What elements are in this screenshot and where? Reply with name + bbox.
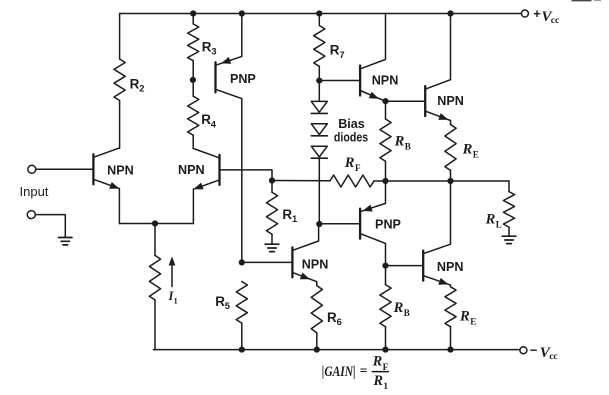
svg-text:R: R bbox=[130, 76, 140, 91]
svg-text:B: B bbox=[404, 308, 410, 318]
svg-text:3: 3 bbox=[211, 47, 216, 57]
svg-text:R: R bbox=[201, 112, 211, 127]
svg-text:NPN: NPN bbox=[437, 260, 464, 274]
svg-text:NPN: NPN bbox=[302, 258, 329, 272]
label Q2 NPN bbox=[178, 163, 205, 177]
svg-text:PNP: PNP bbox=[375, 217, 401, 231]
label Q4 NPN bbox=[372, 74, 399, 88]
node rail RB lower bbox=[382, 347, 388, 353]
resistor RL bbox=[503, 181, 514, 236]
label R1 bbox=[282, 207, 297, 224]
node Q4 emitter bbox=[382, 98, 388, 104]
artifact mark bbox=[572, 0, 602, 1]
terminal input upper bbox=[28, 165, 36, 173]
label PNP1 bbox=[230, 72, 256, 86]
svg-text:4: 4 bbox=[211, 119, 217, 129]
transistor Q4 NPN driver bbox=[319, 14, 385, 102]
wire feedback line bbox=[272, 180, 330, 182]
terminal -Vcc bbox=[520, 347, 527, 354]
node feedback bbox=[269, 177, 275, 183]
svg-text:PNP: PNP bbox=[230, 72, 256, 86]
wire input to Q1 base bbox=[36, 168, 93, 170]
node output RE bbox=[447, 178, 453, 184]
wire output line bbox=[374, 180, 509, 182]
svg-text:R: R bbox=[202, 40, 212, 55]
node rail R5 bbox=[239, 347, 245, 353]
resistor R5 bbox=[236, 282, 247, 350]
resistor RF bbox=[330, 175, 374, 187]
svg-text:1: 1 bbox=[292, 214, 297, 224]
svg-text:R: R bbox=[330, 43, 340, 58]
label RE upper bbox=[462, 142, 479, 160]
label R5 bbox=[215, 294, 230, 311]
label R3 bbox=[202, 40, 217, 57]
wire +Vcc top rail bbox=[120, 13, 522, 15]
svg-text:|GAIN|: |GAIN| bbox=[322, 364, 356, 380]
svg-text:2: 2 bbox=[139, 84, 144, 94]
svg-text:NPN: NPN bbox=[372, 74, 399, 88]
ground R1 bbox=[265, 244, 279, 251]
svg-text:NPN: NPN bbox=[178, 163, 205, 177]
node rail R3 bbox=[190, 10, 196, 16]
resistor R7 bbox=[314, 14, 325, 102]
node R3-R4 junction bbox=[190, 77, 196, 83]
resistor R3 bbox=[188, 14, 199, 80]
svg-text:E: E bbox=[473, 150, 479, 160]
wire emitter join bbox=[119, 223, 193, 225]
label I1 bbox=[168, 289, 178, 306]
label R7 bbox=[330, 43, 345, 60]
ground RL bbox=[502, 236, 516, 243]
resistor R1 bbox=[266, 181, 277, 244]
label gain formula bbox=[322, 354, 389, 392]
wire -Vcc bottom rail bbox=[154, 349, 520, 351]
diode D1 bbox=[311, 101, 327, 113]
label RB upper bbox=[394, 134, 411, 152]
svg-text:cc: cc bbox=[551, 16, 559, 26]
arrow I1 direction bbox=[169, 257, 176, 287]
ground input bbox=[59, 238, 73, 245]
transistor Q6 NPN output bbox=[386, 181, 451, 287]
node Q4 base tap bbox=[316, 78, 322, 84]
svg-text:+: + bbox=[533, 6, 541, 21]
diode D3 bbox=[311, 146, 327, 158]
node rail Q5 collector bbox=[447, 10, 453, 16]
svg-text:R: R bbox=[282, 207, 292, 222]
label Q1 NPN bbox=[107, 163, 134, 177]
svg-text:R: R bbox=[459, 309, 470, 325]
wire diode column down bbox=[318, 159, 320, 224]
label RL bbox=[485, 211, 502, 229]
svg-text:R: R bbox=[394, 134, 405, 150]
svg-text:6: 6 bbox=[337, 317, 342, 327]
transistor Q3 NPN bbox=[242, 224, 319, 286]
transistor Q5 NPN output bbox=[386, 14, 451, 125]
label Input bbox=[20, 184, 49, 199]
label RF bbox=[344, 155, 361, 173]
diode D2 bbox=[311, 124, 327, 136]
svg-text:cc: cc bbox=[549, 352, 557, 362]
label Q5 NPN bbox=[437, 94, 464, 108]
svg-text:R: R bbox=[373, 373, 383, 389]
label bias diodes bbox=[334, 117, 368, 145]
wire Q2 base to feedback node bbox=[220, 170, 273, 181]
svg-text:R: R bbox=[393, 300, 404, 316]
svg-text:L: L bbox=[496, 219, 502, 229]
svg-text:R: R bbox=[344, 155, 355, 171]
label R6 bbox=[327, 310, 342, 327]
svg-text:R: R bbox=[462, 142, 473, 158]
resistor I1 source bbox=[149, 224, 160, 350]
node rail R7 bbox=[316, 10, 322, 16]
label PNP2 bbox=[375, 217, 401, 231]
terminal +Vcc bbox=[521, 10, 528, 17]
transistor PNP2 bbox=[319, 181, 385, 266]
node PNP2 base tap bbox=[316, 221, 322, 227]
svg-text:NPN: NPN bbox=[437, 94, 464, 108]
label RB lower bbox=[393, 300, 410, 318]
svg-text:B: B bbox=[405, 142, 411, 152]
resistor RE upper bbox=[445, 125, 456, 182]
resistor R6 bbox=[311, 286, 322, 350]
node emitter join bbox=[152, 220, 158, 226]
svg-text:R: R bbox=[327, 310, 337, 325]
label Q3 NPN bbox=[302, 258, 329, 272]
node rail R6 bbox=[314, 347, 320, 353]
svg-text:E: E bbox=[470, 317, 476, 327]
label R2 bbox=[130, 76, 145, 93]
resistor R4 bbox=[188, 80, 199, 149]
label Q6 NPN bbox=[437, 260, 464, 274]
resistor RB upper bbox=[380, 101, 391, 181]
svg-text:R: R bbox=[215, 294, 225, 309]
terminal input lower bbox=[27, 211, 35, 219]
node output RB bbox=[382, 178, 388, 184]
svg-text:Input: Input bbox=[20, 184, 49, 199]
label R4 bbox=[201, 112, 217, 129]
svg-text:R: R bbox=[485, 211, 496, 227]
svg-text:−: − bbox=[530, 343, 538, 358]
svg-text:1: 1 bbox=[383, 381, 388, 391]
node Q6 base tap bbox=[382, 263, 388, 269]
transistor PNP1 bbox=[216, 14, 242, 263]
label -Vcc bbox=[530, 343, 558, 363]
svg-text:1: 1 bbox=[174, 296, 178, 306]
svg-text:F: F bbox=[383, 362, 389, 372]
svg-text:NPN: NPN bbox=[107, 163, 134, 177]
svg-text:F: F bbox=[355, 163, 361, 173]
svg-text:=: = bbox=[360, 363, 368, 378]
node rail RE lower bbox=[447, 347, 453, 353]
label +Vcc bbox=[533, 6, 559, 26]
resistor RB lower bbox=[380, 266, 391, 350]
svg-text:5: 5 bbox=[225, 301, 230, 311]
transistor Q2 NPN bbox=[193, 149, 219, 224]
transistor Q1 NPN bbox=[93, 148, 119, 224]
label RE lower bbox=[459, 309, 476, 327]
node Q3 base tap bbox=[239, 259, 245, 265]
resistor R2 bbox=[114, 14, 125, 149]
resistor RE lower bbox=[445, 287, 456, 350]
svg-text:7: 7 bbox=[339, 50, 344, 60]
wire lower input bbox=[36, 215, 66, 237]
svg-text:diodes: diodes bbox=[334, 130, 368, 144]
svg-text:Bias: Bias bbox=[338, 117, 365, 131]
svg-text:R: R bbox=[372, 354, 382, 370]
node rail PNP1 emitter bbox=[239, 10, 245, 16]
